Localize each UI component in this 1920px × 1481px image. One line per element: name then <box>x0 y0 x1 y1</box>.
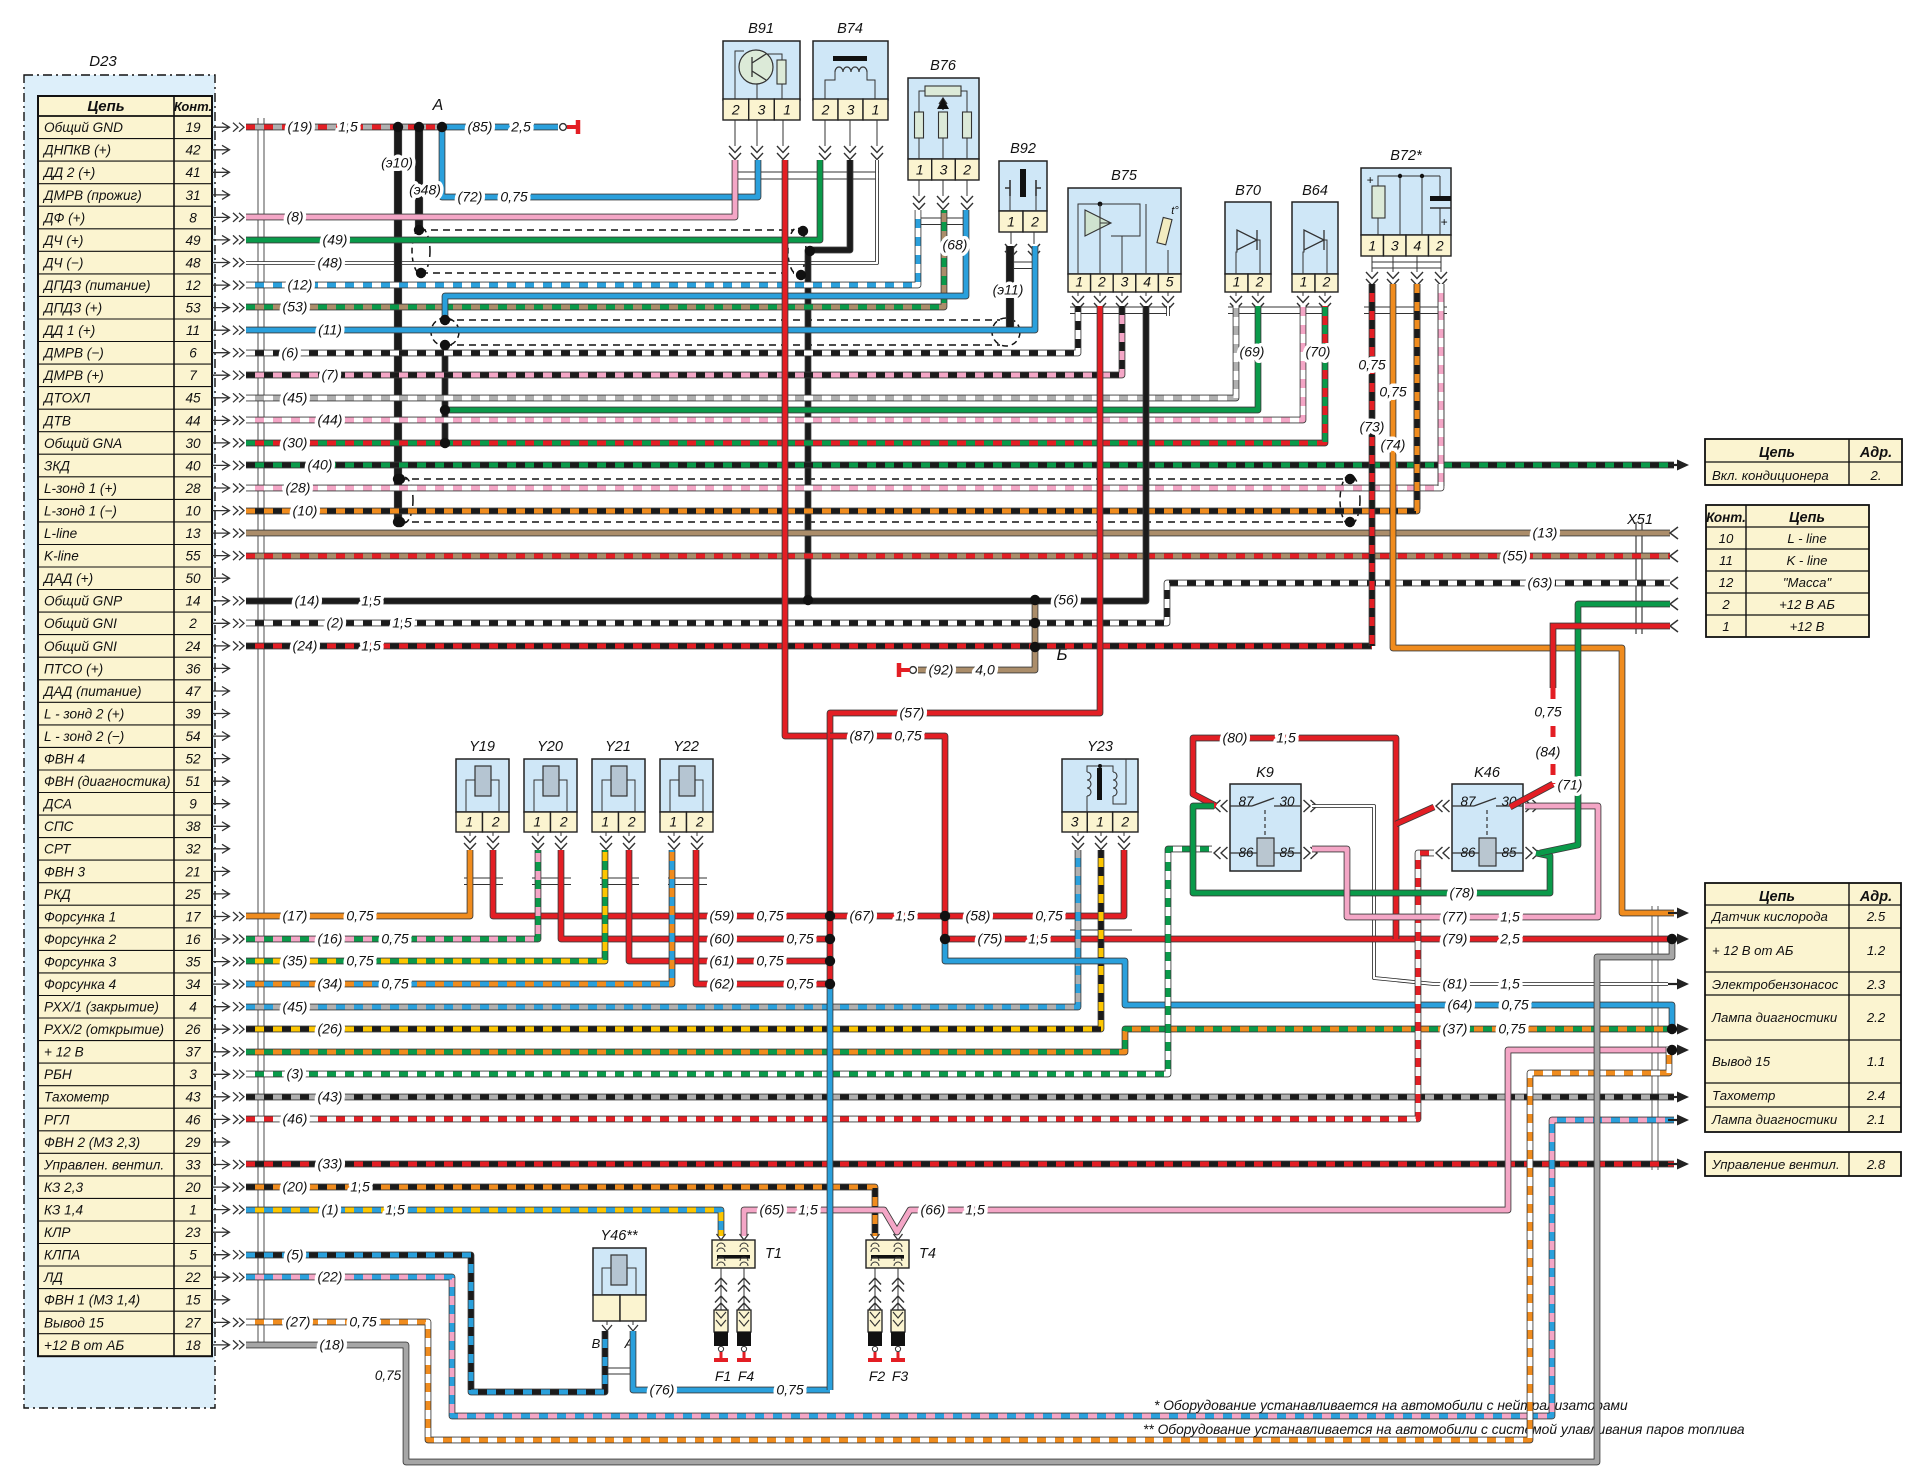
arrow (40) into table <box>1668 460 1689 471</box>
svg-text:Цепь: Цепь <box>87 98 124 115</box>
svg-text:Форсунка 2: Форсунка 2 <box>44 932 117 947</box>
svg-text:21: 21 <box>184 864 200 879</box>
wire (45) idle valve closing <box>246 850 1078 1007</box>
wire ground bus (э48) <box>415 127 423 230</box>
svg-text:(26): (26) <box>318 1021 343 1037</box>
svg-text:(13): (13) <box>1533 525 1558 541</box>
wire (59) injector 1 supply <box>493 850 830 916</box>
svg-text:38: 38 <box>185 819 201 834</box>
sensor B64 (diode) <box>1292 183 1338 292</box>
svg-text:2: 2 <box>1097 274 1106 290</box>
wire (81) fuel pump circuit <box>1312 806 1668 984</box>
wire (46) fan relay control <box>246 853 1434 1119</box>
svg-text:0,75: 0,75 <box>786 976 813 992</box>
label D23 <box>89 53 117 70</box>
svg-text:ДТОХЛ: ДТОХЛ <box>42 391 91 406</box>
svg-text:(73): (73) <box>1360 419 1385 435</box>
svg-text:1: 1 <box>1075 274 1083 290</box>
pin leads of B75 B70 B64 <box>1072 292 1331 310</box>
wire stub to K46 pin 87 <box>1396 807 1434 824</box>
svg-text:Конт.: Конт. <box>174 99 212 114</box>
connector X51 table <box>1706 505 1869 637</box>
svg-text:(17): (17) <box>283 908 308 924</box>
pin leads of B76 <box>913 180 973 210</box>
svg-text:2: 2 <box>1435 238 1444 254</box>
wire (62) injector 4 supply <box>696 850 830 984</box>
wire (10) lambda 1 - <box>246 284 1417 511</box>
idle regulator Y23 <box>1062 739 1138 832</box>
wire (74) oxygen signal <box>1393 284 1674 913</box>
wire (17) injector 1 <box>246 850 470 916</box>
svg-text:ДД 1 (+): ДД 1 (+) <box>42 323 95 338</box>
svg-text:55: 55 <box>185 549 201 564</box>
svg-text:2: 2 <box>962 162 971 178</box>
svg-text:1: 1 <box>465 814 473 830</box>
wire (44) air temp <box>246 306 1303 420</box>
svg-text:1,5: 1,5 <box>1500 909 1520 925</box>
svg-text:(92): (92) <box>929 662 954 678</box>
svg-text:44: 44 <box>185 413 201 428</box>
footnote about catalytic converter <box>1154 1398 1628 1413</box>
svg-text:1: 1 <box>533 814 541 830</box>
svg-text:СПС: СПС <box>44 819 74 834</box>
wire (30) common GNA <box>246 306 1325 443</box>
svg-text:10: 10 <box>185 504 201 519</box>
svg-text:1: 1 <box>1233 274 1241 290</box>
svg-text:18: 18 <box>185 1338 201 1353</box>
wire B74 pin3 lead <box>808 160 850 601</box>
svg-text:A: A <box>432 97 444 114</box>
svg-text:Общий GNA: Общий GNA <box>44 436 122 451</box>
svg-text:+: + <box>1366 173 1373 187</box>
svg-text:Форсунка 3: Форсунка 3 <box>44 955 117 970</box>
svg-text:5: 5 <box>1166 274 1174 290</box>
wire B91 pin1 supply <box>785 160 832 736</box>
svg-text:0,75: 0,75 <box>1379 384 1406 400</box>
svg-text:1,5: 1,5 <box>361 593 381 609</box>
svg-text:ФВН 3: ФВН 3 <box>44 864 85 879</box>
svg-text:2: 2 <box>1255 274 1264 290</box>
wire (8) phase sensor <box>246 160 735 217</box>
wire (84) ignition feed <box>1510 626 1670 807</box>
svg-text:(27): (27) <box>286 1314 311 1330</box>
svg-text:1.2: 1.2 <box>1867 943 1886 958</box>
svg-text:1,5: 1,5 <box>338 119 358 135</box>
wire (28) lead from B72 pin2 <box>1438 284 1445 486</box>
svg-text:(62): (62) <box>710 976 735 992</box>
svg-text:2: 2 <box>559 814 568 830</box>
svg-text:(34): (34) <box>318 976 343 992</box>
wire (40) air conditioner request <box>246 462 1674 469</box>
svg-text:0,75: 0,75 <box>1498 1021 1525 1037</box>
svg-text:(59): (59) <box>710 908 735 924</box>
wire (72) to B91 pin3 <box>442 129 758 197</box>
svg-text:2,5: 2,5 <box>510 119 531 135</box>
svg-text:0,75: 0,75 <box>756 953 783 969</box>
shield screen of knock sensor wire (11) <box>431 318 1020 346</box>
svg-text:+: + <box>1440 215 1447 229</box>
svg-text:(30): (30) <box>283 435 308 451</box>
terminal B symbol <box>899 663 916 677</box>
svg-text:5: 5 <box>189 1248 197 1263</box>
svg-text:1: 1 <box>916 162 924 178</box>
svg-text:(22): (22) <box>318 1269 343 1285</box>
svg-text:23: 23 <box>184 1225 201 1240</box>
svg-text:L - зонд 2 (+): L - зонд 2 (+) <box>44 706 124 721</box>
pin arrows of T4 <box>869 1234 904 1310</box>
svg-text:B64: B64 <box>1302 183 1328 199</box>
svg-text:40: 40 <box>185 458 201 473</box>
svg-text:6: 6 <box>189 346 197 361</box>
svg-text:7: 7 <box>189 368 197 383</box>
wire (19) common GND <box>246 124 442 131</box>
svg-text:(6): (6) <box>281 345 298 361</box>
svg-text:(12): (12) <box>288 277 313 293</box>
wire (71) battery wire <box>1540 604 1670 853</box>
wire valve supply riser <box>827 984 834 1390</box>
svg-text:(84): (84) <box>1536 744 1561 760</box>
wire ground lead (э11) <box>1006 246 1014 327</box>
wire (24) common GNI <box>246 643 1372 650</box>
svg-text:СРТ: СРТ <box>44 842 72 857</box>
node B <box>1056 645 1067 664</box>
arrow (37) into table <box>1668 1024 1689 1035</box>
arrow (74) into table <box>1668 908 1689 919</box>
svg-text:2: 2 <box>1322 274 1331 290</box>
svg-text:РХХ/2 (открытие): РХХ/2 (открытие) <box>44 1022 164 1037</box>
svg-text:10: 10 <box>1719 531 1734 546</box>
wire B76 pin2 lead (68) <box>445 210 966 318</box>
svg-text:0,75: 0,75 <box>381 976 408 992</box>
svg-text:0,75: 0,75 <box>381 931 408 947</box>
svg-text:Вывод 15: Вывод 15 <box>1712 1054 1771 1069</box>
svg-text:45: 45 <box>185 391 201 406</box>
svg-text:T4: T4 <box>919 1246 936 1262</box>
svg-text:20: 20 <box>184 1180 201 1195</box>
svg-text:1: 1 <box>783 102 791 118</box>
svg-text:(69): (69) <box>1240 344 1265 360</box>
svg-text:(2): (2) <box>326 615 343 631</box>
svg-text:Общий GNI: Общий GNI <box>44 639 117 654</box>
wire (28) lambda 1 + <box>246 284 1441 488</box>
wire (18) battery feed <box>246 941 1672 1462</box>
svg-text:(61): (61) <box>710 953 735 969</box>
svg-text:T1: T1 <box>765 1246 782 1262</box>
svg-text:1,5: 1,5 <box>965 1202 985 1218</box>
svg-text:"Масса": "Масса" <box>1783 575 1833 590</box>
wire (78) relay K9 to K46 <box>1193 806 1550 893</box>
svg-text:Y23: Y23 <box>1087 739 1113 755</box>
svg-text:2.: 2. <box>1870 468 1882 483</box>
svg-text:0,75: 0,75 <box>894 728 921 744</box>
svg-text:(37): (37) <box>1443 1021 1468 1037</box>
svg-text:(8): (8) <box>286 209 303 225</box>
svg-text:(10): (10) <box>293 503 318 519</box>
svg-text:4: 4 <box>1143 274 1151 290</box>
svg-text:3: 3 <box>1391 238 1399 254</box>
sensor B72* (oxygen sensor) <box>1361 148 1451 256</box>
svg-text:ЗКД: ЗКД <box>44 458 70 473</box>
wire (79) battery feed <box>1396 936 1674 943</box>
svg-text:(57): (57) <box>900 705 925 721</box>
svg-text:29: 29 <box>184 1135 201 1150</box>
svg-text:B76: B76 <box>930 58 957 74</box>
svg-text:2.2: 2.2 <box>1866 1010 1886 1025</box>
svg-text:(28): (28) <box>286 480 311 496</box>
svg-text:Конт.: Конт. <box>1706 510 1746 525</box>
svg-text:Y19: Y19 <box>469 739 495 755</box>
wire (48) to B74 pin1 <box>246 160 877 263</box>
svg-text:(46): (46) <box>283 1111 308 1127</box>
svg-text:(20): (20) <box>283 1179 308 1195</box>
svg-text:ФВН 4: ФВН 4 <box>44 752 85 767</box>
wire (55) K-line <box>246 553 1670 560</box>
ECU connector boundary double line <box>258 118 264 1348</box>
pin leads of Y23 <box>1072 832 1130 850</box>
svg-text:(72): (72) <box>458 189 483 205</box>
svg-text:8: 8 <box>189 210 197 225</box>
svg-text:(67): (67) <box>850 908 875 924</box>
svg-text:2: 2 <box>1721 597 1730 612</box>
svg-text:36: 36 <box>185 661 201 676</box>
svg-text:2.4: 2.4 <box>1866 1088 1885 1103</box>
svg-text:(40): (40) <box>308 457 333 473</box>
svg-text:КЛР: КЛР <box>44 1225 70 1240</box>
svg-text:* Оборудование устанавливается: * Оборудование устанавливается на автомо… <box>1154 1398 1628 1413</box>
svg-text:Тахометр: Тахометр <box>44 1090 110 1105</box>
svg-text:(49): (49) <box>323 232 348 248</box>
svg-text:Цепь: Цепь <box>1789 510 1825 526</box>
svg-text:1,5: 1,5 <box>350 1179 370 1195</box>
svg-text:35: 35 <box>185 955 201 970</box>
svg-text:(68): (68) <box>943 237 968 253</box>
sensor B76 (potentiometer) <box>908 58 979 180</box>
svg-text:(э48): (э48) <box>409 182 441 198</box>
svg-text:30: 30 <box>185 436 201 451</box>
wire (14)(56) common GNP <box>246 306 1146 601</box>
wire (35) injector 3 <box>246 850 605 961</box>
wire (33) fan control <box>246 1161 1674 1168</box>
svg-text:(79): (79) <box>1443 931 1468 947</box>
svg-text:B72*: B72* <box>1390 148 1423 164</box>
svg-text:B74: B74 <box>837 21 863 37</box>
svg-text:K46: K46 <box>1474 765 1501 781</box>
svg-text:КЗ 2,3: КЗ 2,3 <box>44 1180 83 1195</box>
svg-text:24: 24 <box>184 639 201 654</box>
connector X51 double line <box>1636 522 1642 634</box>
svg-text:РКД: РКД <box>44 887 71 902</box>
svg-text:(45): (45) <box>283 999 308 1015</box>
svg-text:ДФ (+): ДФ (+) <box>42 210 85 225</box>
svg-text:ДАД (питание): ДАД (питание) <box>42 684 142 699</box>
svg-text:9: 9 <box>189 797 197 812</box>
svg-text:1,5: 1,5 <box>385 1202 405 1218</box>
svg-text:Общий GNP: Общий GNP <box>44 594 122 609</box>
svg-text:2.1: 2.1 <box>1866 1112 1885 1127</box>
svg-text:1: 1 <box>872 102 880 118</box>
svg-text:(74): (74) <box>1381 437 1406 453</box>
svg-text:2: 2 <box>491 814 500 830</box>
harness connector ticks <box>464 218 1447 937</box>
svg-text:B92: B92 <box>1010 141 1036 157</box>
svg-text:(5): (5) <box>286 1247 303 1263</box>
svg-text:(75): (75) <box>978 931 1003 947</box>
svg-text:ДД 2 (+): ДД 2 (+) <box>42 165 95 180</box>
wire (58) idle valve supply <box>830 850 1124 916</box>
svg-text:11: 11 <box>186 323 200 338</box>
svg-text:(78): (78) <box>1450 885 1475 901</box>
svg-text:(80): (80) <box>1223 730 1248 746</box>
svg-text:0,75: 0,75 <box>375 1368 402 1383</box>
svg-text:(43): (43) <box>318 1089 343 1105</box>
pin arrows of K46 <box>1436 800 1539 859</box>
svg-text:Y21: Y21 <box>605 739 631 755</box>
svg-text:39: 39 <box>185 706 201 721</box>
svg-text:(16): (16) <box>318 931 343 947</box>
svg-text:B70: B70 <box>1235 183 1261 199</box>
svg-text:14: 14 <box>185 594 201 609</box>
arrow (81) into table <box>1668 979 1689 990</box>
pin leads of Y21 <box>600 832 635 850</box>
capacitor B92 <box>999 141 1047 232</box>
svg-text:2: 2 <box>1030 214 1039 230</box>
svg-text:(70): (70) <box>1306 344 1331 360</box>
svg-text:0,75: 0,75 <box>776 1382 803 1398</box>
svg-text:(44): (44) <box>318 412 343 428</box>
svg-text:1: 1 <box>1007 214 1015 230</box>
svg-text:Управление вентил.: Управление вентил. <box>1711 1157 1840 1172</box>
svg-text:ДСА: ДСА <box>42 797 72 812</box>
relay K9 <box>1230 765 1301 871</box>
svg-text:Цепь: Цепь <box>1759 445 1795 461</box>
svg-text:15: 15 <box>185 1293 201 1308</box>
svg-text:L - line: L - line <box>1787 531 1826 546</box>
footnote about vapor recovery <box>1143 1422 1745 1437</box>
svg-text:+12 В от АБ: +12 В от АБ <box>44 1338 124 1353</box>
sensor B70 (diode) <box>1225 183 1271 292</box>
injector Y21 <box>592 739 645 832</box>
svg-text:(66): (66) <box>921 1202 946 1218</box>
svg-text:13: 13 <box>185 526 201 541</box>
svg-text:51: 51 <box>185 774 200 789</box>
svg-text:2: 2 <box>695 814 704 830</box>
svg-text:+12 В: +12 В <box>1790 619 1825 634</box>
wire (76) canister valve supply <box>633 1331 830 1390</box>
svg-text:ДМРВ (−): ДМРВ (−) <box>42 346 104 361</box>
pin leads of B91 B74 <box>729 120 883 179</box>
svg-text:0,75: 0,75 <box>1035 908 1062 924</box>
relay K46 <box>1452 765 1523 871</box>
wire (27) terminal 15 <box>246 1047 1669 1440</box>
svg-text:ПТСО (+): ПТСО (+) <box>44 661 103 676</box>
wire B75 pin5 lead <box>1166 306 1170 316</box>
wire (53) TPS signal <box>246 210 944 307</box>
svg-text:В: В <box>592 1336 601 1351</box>
spark plug F1 <box>714 1310 731 1384</box>
spark plug F2 <box>868 1310 885 1384</box>
svg-text:F1: F1 <box>715 1368 731 1384</box>
svg-text:(77): (77) <box>1443 909 1468 925</box>
svg-text:Тахометр: Тахометр <box>1712 1088 1775 1103</box>
svg-text:28: 28 <box>184 481 201 496</box>
svg-text:L - зонд 2 (−): L - зонд 2 (−) <box>44 729 124 744</box>
ignition coil T1 <box>712 1240 782 1268</box>
svg-text:(55): (55) <box>1503 548 1528 564</box>
svg-text:(60): (60) <box>710 931 735 947</box>
svg-text:+12 В АБ: +12 В АБ <box>1779 597 1835 612</box>
svg-text:Адр.: Адр. <box>1859 889 1892 905</box>
svg-text:41: 41 <box>185 165 200 180</box>
svg-text:1: 1 <box>189 1203 197 1218</box>
svg-text:2: 2 <box>627 814 636 830</box>
svg-text:0,75: 0,75 <box>349 1314 376 1330</box>
svg-text:1: 1 <box>601 814 609 830</box>
wire (45) coolant temp <box>246 306 1236 398</box>
svg-text:Вывод 15: Вывод 15 <box>44 1315 104 1330</box>
svg-text:32: 32 <box>185 842 201 857</box>
svg-text:(45): (45) <box>283 390 308 406</box>
svg-text:ДМРВ (+): ДМРВ (+) <box>42 368 104 383</box>
spark plug F3 <box>891 1310 908 1384</box>
svg-text:49: 49 <box>185 233 201 248</box>
svg-text:(33): (33) <box>318 1156 343 1172</box>
svg-text:(71): (71) <box>1558 777 1583 793</box>
svg-text:3: 3 <box>940 162 948 178</box>
svg-text:Управлен. вентил.: Управлен. вентил. <box>43 1157 164 1172</box>
svg-text:30: 30 <box>1279 794 1295 809</box>
svg-text:(11): (11) <box>318 322 342 338</box>
wire (77) relay feed <box>1312 806 1598 917</box>
svg-text:2: 2 <box>731 102 740 118</box>
pin leads of Y19 <box>464 832 499 850</box>
svg-text:50: 50 <box>185 571 201 586</box>
svg-text:+ 12 В от АБ: + 12 В от АБ <box>1712 943 1794 958</box>
svg-text:K - line: K - line <box>1786 553 1827 568</box>
svg-text:87: 87 <box>1460 794 1476 809</box>
svg-text:L-line: L-line <box>44 526 78 541</box>
svg-text:(85): (85) <box>468 119 493 135</box>
svg-text:2.5: 2.5 <box>1866 909 1886 924</box>
wire (43) tachometer <box>246 1094 1674 1101</box>
svg-text:Форсунка 1: Форсунка 1 <box>44 909 116 924</box>
shield screen of B74 sensor wires <box>412 228 806 274</box>
svg-text:42: 42 <box>185 143 201 158</box>
svg-text:1: 1 <box>1722 619 1729 634</box>
ECU pin table D23 <box>38 96 212 1356</box>
svg-text:ДАД (+): ДАД (+) <box>42 571 93 586</box>
svg-text:12: 12 <box>1719 575 1734 590</box>
svg-text:ДПДЗ (питание): ДПДЗ (питание) <box>42 278 151 293</box>
svg-text:1.1: 1.1 <box>1867 1054 1885 1069</box>
svg-text:ДМРВ (прожиг): ДМРВ (прожиг) <box>42 188 142 203</box>
svg-text:26: 26 <box>184 1022 201 1037</box>
svg-text:РГЛ: РГЛ <box>44 1112 70 1127</box>
valve Y46** (canister purge) <box>593 1228 646 1321</box>
svg-text:Y22: Y22 <box>673 739 699 755</box>
arrow (22) into table <box>1668 1115 1689 1126</box>
svg-text:(19): (19) <box>288 119 313 135</box>
svg-text:ДПДЗ (+): ДПДЗ (+) <box>42 301 102 316</box>
svg-text:43: 43 <box>185 1090 201 1105</box>
svg-text:(64): (64) <box>1448 997 1473 1013</box>
svg-text:Форсунка 4: Форсунка 4 <box>44 977 117 992</box>
svg-text:52: 52 <box>185 752 201 767</box>
wire (49) speed sensor + <box>246 160 820 240</box>
wire ground bus (э10) <box>394 127 402 522</box>
ECU connector D23 outer frame <box>24 75 215 1408</box>
wire (6) MAF minus <box>246 306 1078 353</box>
svg-text:17: 17 <box>185 909 201 924</box>
